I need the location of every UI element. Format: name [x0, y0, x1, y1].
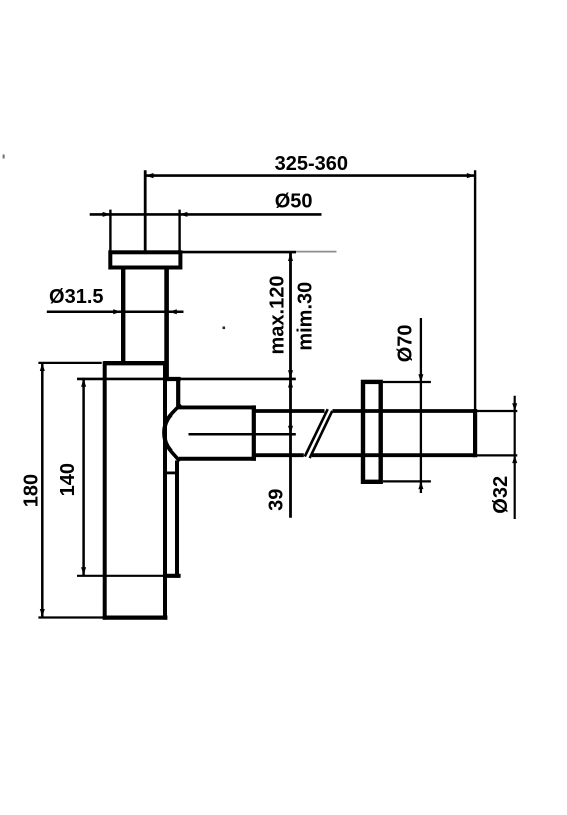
dimension line Ø31.5 — [47, 310, 184, 313]
svg-text:180: 180 — [21, 474, 43, 507]
outlet pipe top wall left of break — [254, 409, 325, 413]
arrow top 140 — [81, 379, 86, 387]
svg-text:Ø32: Ø32 — [490, 476, 512, 514]
svg-text:Ø70: Ø70 — [395, 324, 417, 362]
extension line rosette bottom — [383, 480, 431, 482]
cup joint seam — [77, 575, 163, 577]
collar bottom right thick segment — [163, 377, 181, 381]
arrow right 325-360 — [467, 173, 475, 178]
arrow right Ø50 — [179, 212, 187, 217]
gray extension segment — [296, 251, 337, 253]
outlet nut top wall — [178, 405, 256, 409]
arrow bottom 39 — [288, 426, 293, 434]
arrow right Ø31.5 — [169, 309, 177, 314]
svg-text:max.120: max.120 — [266, 276, 288, 355]
outlet nut bottom wall — [179, 457, 256, 461]
outlet pipe top wall right of break — [333, 409, 476, 413]
arrow bottom Ø32 — [512, 455, 517, 463]
arrow left Ø50 — [103, 212, 111, 217]
dimension line 180 — [41, 362, 44, 617]
extension line pipe top right — [477, 410, 518, 412]
body left wall — [103, 361, 107, 619]
boss bottom cap — [165, 574, 181, 578]
extension line pipe bottom right — [477, 454, 518, 456]
break slash 2 — [310, 411, 333, 458]
dimension line max120-39 — [289, 252, 292, 518]
arrow bottom 180 — [40, 609, 45, 617]
arrow top 180 — [40, 363, 45, 371]
extension line flange top toward max dim — [180, 251, 296, 254]
cup bottom — [103, 615, 168, 619]
body right wall — [163, 363, 167, 620]
inlet pipe left wall — [121, 269, 125, 364]
extension line rosette top — [383, 381, 431, 383]
body top joint line — [77, 378, 296, 381]
outlet boss lower chamfer — [171, 451, 180, 461]
outlet pipe end cap — [473, 409, 477, 457]
boss lower tick — [164, 471, 179, 474]
extension line wall end — [474, 170, 476, 410]
elbow arc — [164, 414, 171, 451]
dimension line 140 — [82, 378, 85, 576]
pipe centerline — [189, 433, 296, 436]
svg-text:Ø31.5: Ø31.5 — [49, 286, 103, 308]
arrow left Ø31.5 — [113, 309, 121, 314]
extension line centerline top pipe — [144, 170, 147, 251]
outlet boss upper wall — [176, 377, 180, 406]
outlet pipe bottom wall left of break — [254, 453, 304, 457]
svg-text:140: 140 — [57, 463, 79, 496]
arrow bottom max120 — [288, 370, 293, 378]
svg-text:Ø50: Ø50 — [275, 191, 313, 213]
outlet nut step — [252, 405, 256, 460]
stray dot near pipe — [223, 327, 226, 330]
inlet pipe right wall — [164, 269, 169, 379]
extension line Ø50 left — [109, 210, 111, 251]
body collar top — [104, 361, 168, 365]
wall rosette outline — [363, 382, 381, 482]
extension line Ø50 right — [178, 210, 180, 251]
arrow top 39 — [288, 380, 293, 388]
arrow bottom 140 — [81, 567, 86, 575]
svg-text:mim.30: mim.30 — [295, 282, 317, 351]
arrow top Ø32 — [512, 403, 517, 411]
outlet boss upper chamfer — [171, 404, 181, 414]
arrow left 325-360 — [146, 173, 154, 178]
top flange outline — [110, 252, 180, 267]
stray mark left margin — [3, 155, 5, 159]
extension line collar top — [38, 362, 101, 364]
extension line cup bottom — [38, 616, 103, 618]
arrow top max120 — [288, 253, 293, 261]
dimension line Ø32 — [514, 396, 516, 519]
arrow bottom Ø70 — [418, 481, 423, 489]
svg-text:325-360: 325-360 — [275, 153, 348, 175]
arrow top Ø70 — [418, 374, 423, 382]
outlet pipe bottom wall right of break — [312, 453, 475, 457]
break slash 1 — [305, 409, 328, 456]
dimension line Ø50 — [90, 213, 322, 216]
dimension line 325-360 — [145, 174, 475, 177]
svg-text:39: 39 — [265, 489, 287, 511]
dimension line Ø70 — [420, 318, 422, 493]
outlet boss lower wall — [175, 461, 179, 578]
